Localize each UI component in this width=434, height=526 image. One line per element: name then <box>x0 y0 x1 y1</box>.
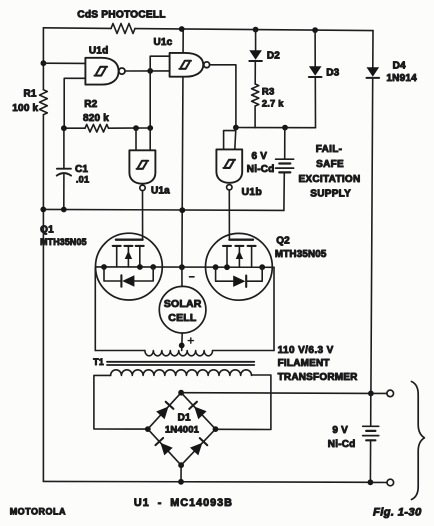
transistor Q1 contacts <box>113 245 121 247</box>
svg-text:2.7 k: 2.7 k <box>262 99 284 109</box>
wire primary left lead <box>94 267 96 350</box>
node Q1 drain junction <box>137 264 143 270</box>
svg-text:Fig. 1-30: Fig. 1-30 <box>373 507 422 519</box>
svg-text:D4: D4 <box>393 61 406 72</box>
diode D2 <box>249 50 262 60</box>
wire secondary left lead <box>94 375 148 429</box>
svg-text:R3: R3 <box>262 87 275 98</box>
svg-text:SAFE: SAFE <box>316 159 344 170</box>
node U1a output bubble <box>140 185 145 190</box>
battery 9V Ni-Cd <box>370 393 372 426</box>
diode D4 <box>367 67 380 77</box>
wire ground rail <box>43 209 284 210</box>
node Q1 source junction <box>101 264 107 270</box>
wire U1d output <box>125 70 170 72</box>
svg-text:110 V/6.3 V: 110 V/6.3 V <box>278 345 334 356</box>
diode Q1 body diode <box>104 267 121 281</box>
node top rail U1c junction <box>179 26 185 32</box>
node output plus terminal <box>387 390 394 397</box>
node bridge left vertex <box>145 426 151 432</box>
diode D1 bridge upper-left <box>156 407 168 420</box>
wire U1a output to Q1 gate <box>142 191 144 240</box>
svg-text:FILAMENT: FILAMENT <box>278 358 330 369</box>
node output minus terminal <box>387 479 394 486</box>
transistor Q1 body arrow <box>125 251 132 259</box>
svg-text:1N914: 1N914 <box>386 73 417 84</box>
wire source line <box>96 266 274 268</box>
wire U1b output to Q2 gate <box>228 190 230 240</box>
transformer T1 core <box>107 361 254 363</box>
brace load <box>412 382 425 500</box>
wire D2 top lead <box>255 30 257 51</box>
diode D1 bridge upper-right <box>194 407 206 420</box>
wire secondary right lead <box>216 375 271 430</box>
diode Q2 body diode <box>216 267 233 281</box>
node VDD ground junction <box>179 207 185 213</box>
node solar minus sign <box>190 276 195 278</box>
node C1 ground junction <box>61 207 67 213</box>
svg-text:820 k: 820 k <box>83 113 109 124</box>
op-amp U1c <box>170 53 204 77</box>
svg-text:EXCITATION: EXCITATION <box>298 174 360 185</box>
node Q2 source junction <box>224 264 230 270</box>
node source-line VDD junction <box>179 264 185 270</box>
resistor CdS photocell <box>111 24 135 34</box>
wire feedback vertical <box>149 71 151 128</box>
node U1b output bubble <box>227 185 232 190</box>
svg-text:C1: C1 <box>75 164 88 175</box>
transistor Q2 contacts <box>223 245 231 247</box>
diode D3 <box>309 66 322 76</box>
node D3 top junction <box>312 27 318 33</box>
wire plus terminal stub <box>371 392 387 394</box>
svg-text:U1c: U1c <box>154 37 173 48</box>
resistor R1 <box>40 90 48 115</box>
svg-text:9 V: 9 V <box>332 425 348 436</box>
wire U1d bottom input <box>64 78 85 128</box>
node D2 top junction <box>253 27 259 33</box>
wire left rail <box>42 28 44 90</box>
node R2-C1 junction <box>61 125 67 131</box>
wire U1b input loop <box>235 128 236 150</box>
svg-text:U1 - MC14093B: U1 - MC14093B <box>134 497 233 509</box>
svg-text:D2: D2 <box>267 50 280 61</box>
svg-text:100 k: 100 k <box>12 103 38 114</box>
wire R2 right lead <box>109 127 151 129</box>
battery 6V Ni-Cd <box>284 128 286 159</box>
capacitor C1 <box>63 128 65 168</box>
inductor T1 primary <box>145 351 213 356</box>
svg-text:Ni-Cd: Ni-Cd <box>247 164 275 175</box>
wire solar cell bottom lead <box>181 333 184 351</box>
svg-text:R2: R2 <box>84 99 97 110</box>
wire bottom rail <box>43 480 370 483</box>
svg-text:1N4001: 1N4001 <box>165 424 199 435</box>
svg-text:SOLAR: SOLAR <box>164 298 202 310</box>
node solar plus sign <box>188 340 193 342</box>
node U1d output bubble <box>119 68 125 74</box>
wire U1c top input loop <box>150 56 169 71</box>
transistor Q2 circle <box>206 233 273 300</box>
wire D2-R3 <box>254 62 256 85</box>
wire U1a input A <box>135 128 137 150</box>
svg-text:R1: R1 <box>24 88 37 99</box>
wire D3 top lead <box>314 30 316 66</box>
wire VDD vertical through U1c <box>182 29 183 267</box>
svg-text:T1: T1 <box>93 357 104 367</box>
node U1c output junction <box>233 125 239 131</box>
node ground-left junction <box>40 207 46 213</box>
svg-text:D1: D1 <box>178 412 191 423</box>
node output plus junction <box>368 391 374 397</box>
node U1d top input junction <box>41 60 47 66</box>
svg-text:U1b: U1b <box>242 186 262 198</box>
svg-text:SUPPLY: SUPPLY <box>310 188 351 199</box>
node bridge top vertex <box>178 390 184 396</box>
node Q1 loop junction <box>150 264 156 270</box>
wire D3 bottom lead <box>314 78 316 128</box>
svg-text:Ni-Cd: Ni-Cd <box>328 439 356 450</box>
node 6V battery junction <box>282 125 288 131</box>
node U1d output junction <box>147 68 153 74</box>
wire bridge frame <box>148 393 216 466</box>
wire minus terminal stub <box>370 481 387 483</box>
svg-text:TRANSFORMER: TRANSFORMER <box>278 372 359 383</box>
svg-text:U1d: U1d <box>89 45 109 56</box>
wire primary right lead <box>213 350 274 352</box>
node Q2 loop junction <box>213 264 219 270</box>
wire U1c output <box>210 65 236 128</box>
node bridge bottom vertex <box>178 462 184 468</box>
wire net R3-D3 horizontal <box>236 127 316 129</box>
wire bridge plus output <box>181 392 371 395</box>
svg-text:CELL: CELL <box>168 312 197 324</box>
resistor R3 <box>252 84 259 106</box>
node output minus junction <box>368 479 374 485</box>
svg-text:.01: .01 <box>76 175 89 185</box>
svg-text:Q2: Q2 <box>276 235 290 246</box>
wire U1a input B <box>149 128 151 150</box>
solar cell circle <box>159 286 206 333</box>
diode D1 bridge lower-right <box>190 443 202 456</box>
wire R2 left lead <box>64 127 85 129</box>
node Q2 drain junction <box>259 264 265 270</box>
transistor Q2 body arrow <box>236 251 243 259</box>
node U1a input junction A <box>133 125 139 131</box>
svg-text:D3: D3 <box>326 68 339 79</box>
wire solar cell top lead <box>181 267 183 286</box>
svg-text:U1a: U1a <box>151 186 170 197</box>
node U1a input junction B <box>147 125 153 131</box>
wire top rail <box>43 27 111 30</box>
svg-text:CdS PHOTOCELL: CdS PHOTOCELL <box>77 9 165 20</box>
svg-text:MTH35N05: MTH35N05 <box>40 237 87 247</box>
inductor T1 secondary <box>111 370 252 376</box>
wire U1d top input <box>43 62 85 64</box>
svg-text:6 V: 6 V <box>252 151 268 162</box>
svg-text:MTH35N05: MTH35N05 <box>275 249 327 260</box>
op-amp U1b <box>216 149 242 182</box>
node solar-primary tap junction <box>179 343 185 349</box>
op-amp U1d <box>85 58 118 85</box>
transistor Q2 gate bar <box>229 239 253 241</box>
svg-text:FAIL-: FAIL- <box>316 144 343 155</box>
svg-text:Q1: Q1 <box>40 225 54 236</box>
resistor R2 <box>85 124 109 132</box>
wire R3 bottom lead <box>254 106 256 128</box>
wire right rail D4 branch <box>372 31 374 68</box>
op-amp U1a <box>129 150 155 183</box>
node bridge ground junction <box>178 479 184 485</box>
diode D1 bridge lower-left <box>160 443 172 456</box>
wire bridge bottom lead <box>180 465 182 482</box>
transistor Q1 gate bar <box>116 239 143 241</box>
transistor Q1 circle <box>95 233 162 300</box>
svg-text:MOTOROLA: MOTOROLA <box>10 507 66 517</box>
node U1c output bubble <box>204 62 210 68</box>
node bridge right vertex <box>213 426 219 432</box>
